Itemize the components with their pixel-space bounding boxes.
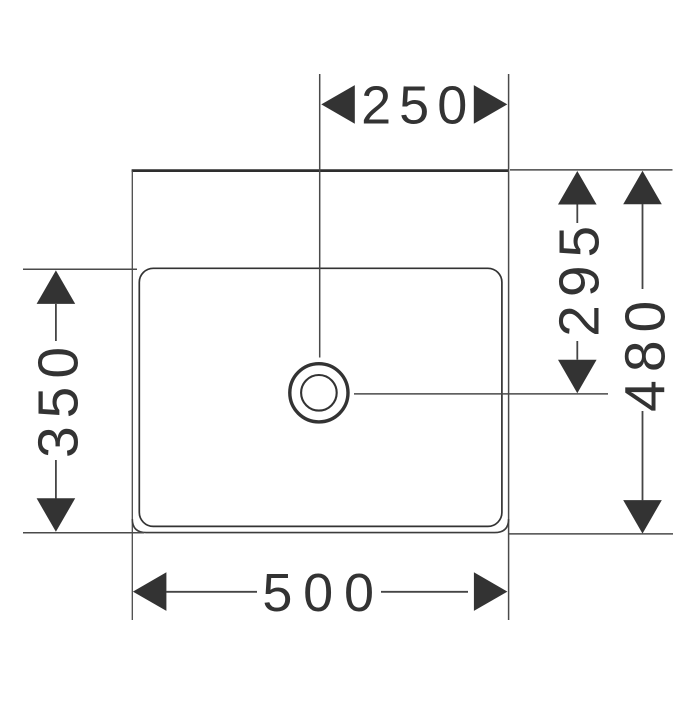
dimension 295 top arrow <box>558 171 597 205</box>
extension line left bottom <box>23 532 144 534</box>
basin outer rim right edge <box>508 74 510 620</box>
dimension 500 right arrow <box>474 572 508 611</box>
dimension 295 line top segment <box>576 205 578 224</box>
basin outer rim left edge <box>131 171 133 620</box>
basin outer rim bottom edge <box>132 519 508 533</box>
dimension 250 left arrow <box>321 85 355 124</box>
dimension 500 line left segment <box>166 591 257 593</box>
dimension 500 left arrow <box>133 572 167 611</box>
extension line bottom right <box>509 533 673 535</box>
basin bowl (inner rounded rectangle) <box>139 268 502 526</box>
dimension 500 line right segment <box>381 591 468 593</box>
dimension 250 right arrow <box>474 85 508 124</box>
dimension 480 top arrow <box>623 171 662 205</box>
extension line left top <box>23 268 137 270</box>
drain outer circle <box>290 364 348 422</box>
dimension 350 line top segment <box>55 304 57 341</box>
dimension 480 line bottom segment <box>642 411 644 501</box>
drain inner circle <box>301 375 337 411</box>
dimension 350 bottom arrow <box>37 498 76 532</box>
dimension 295 line bottom segment <box>576 341 578 360</box>
extension line right of drain <box>354 393 608 395</box>
svg-text:480: 480 <box>613 293 677 412</box>
basin outer rim top edge <box>132 169 509 172</box>
dimension 480 bottom arrow <box>623 500 662 533</box>
dimension 350 line bottom segment <box>55 460 57 499</box>
dimension 480 line top segment <box>642 204 644 289</box>
svg-text:295: 295 <box>547 218 611 337</box>
extension line top right <box>510 169 673 171</box>
dimension 350 top arrow <box>37 270 76 304</box>
center line to drain <box>319 74 321 358</box>
svg-text:500: 500 <box>262 563 385 623</box>
dimension 295 bottom arrow <box>558 360 597 394</box>
svg-text:250: 250 <box>361 76 475 136</box>
svg-text:350: 350 <box>26 339 90 458</box>
